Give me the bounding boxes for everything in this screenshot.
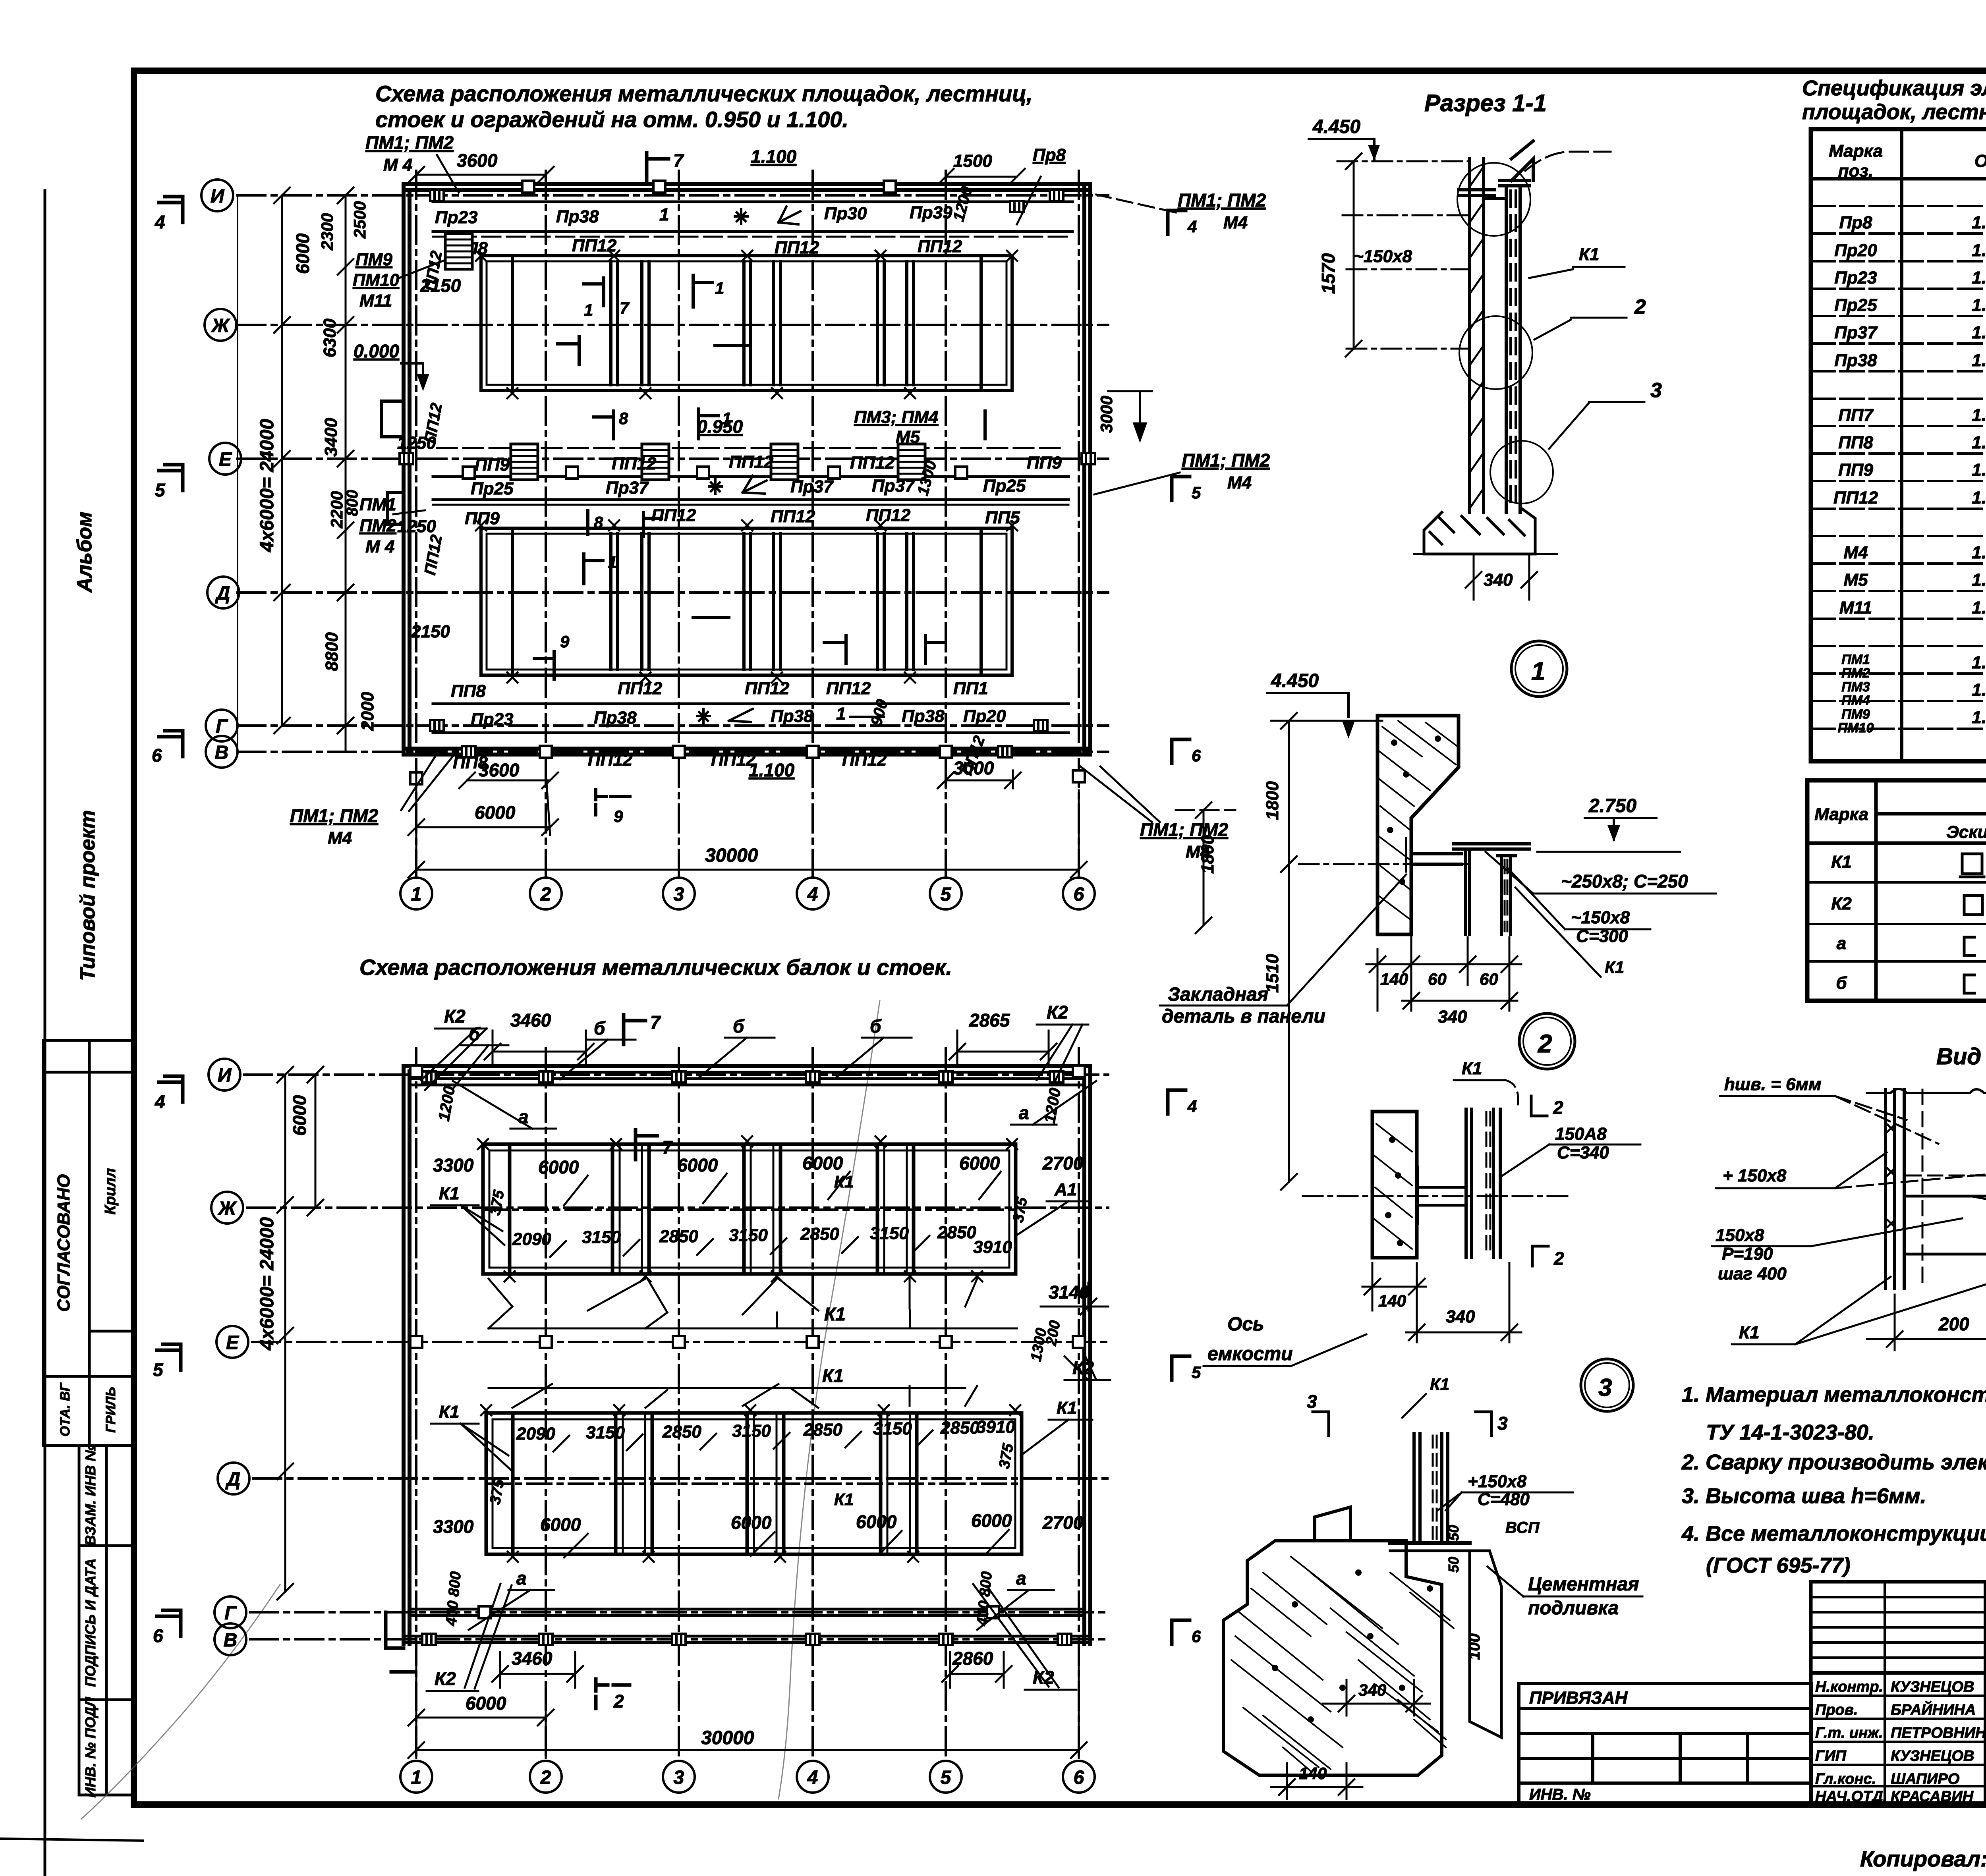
- svg-text:М5: М5: [1843, 570, 1868, 590]
- svg-text:1.459-2, вып.2: 1.459-2, вып.2: [1972, 460, 1986, 480]
- svg-text:Пр38: Пр38: [594, 708, 637, 728]
- svg-text:К2: К2: [1831, 894, 1852, 913]
- svg-text:50: 50: [1445, 1525, 1462, 1541]
- svg-text:7: 7: [673, 150, 684, 171]
- sheet edge line: [44, 191, 46, 1876]
- svg-text:2: 2: [1538, 1029, 1552, 1058]
- svg-text:Пр8: Пр8: [1033, 145, 1066, 165]
- svg-text:ПП9: ПП9: [1838, 460, 1873, 480]
- svg-text:2: 2: [1634, 295, 1646, 318]
- svg-text:стоек и ограждений на отм.: стоек и ограждений на отм. 0.950 и 1.100…: [375, 107, 848, 132]
- svg-text:~150х8: ~150х8: [1353, 247, 1412, 266]
- svg-text:1.459-2, вып.2: 1.459-2, вып.2: [1972, 433, 1986, 452]
- svg-text:5: 5: [1192, 1363, 1201, 1382]
- svg-text:4: 4: [1187, 217, 1197, 236]
- svg-text:1250: 1250: [397, 517, 436, 536]
- K1 sketch: two channels: [1962, 854, 1973, 874]
- wavy top: [1867, 1089, 1986, 1093]
- 6000 labels top row: [538, 1153, 1000, 1177]
- svg-text:Д: Д: [225, 1469, 241, 1490]
- tank 1: [481, 256, 1012, 390]
- svg-text:4: 4: [155, 212, 165, 232]
- svg-text:деталь в панели: деталь в панели: [1162, 1006, 1325, 1027]
- svg-text:375: 375: [1010, 1196, 1031, 1224]
- svg-text:8800: 8800: [322, 632, 342, 671]
- svg-text:2: 2: [540, 884, 551, 905]
- svg-text:3: 3: [674, 1767, 684, 1788]
- top beams (б) triple lines: [410, 1072, 1084, 1085]
- svg-text:емкости: емкости: [1207, 1343, 1293, 1365]
- svg-text:4: 4: [155, 1091, 165, 1112]
- svg-text:3150: 3150: [870, 1224, 909, 1243]
- 3140 dim right: [1041, 1283, 1108, 1314]
- svg-text:БРАЙНИНА: БРАЙНИНА: [1891, 1700, 1976, 1718]
- svg-text:Марка: Марка: [1814, 805, 1868, 824]
- svg-text:Н.контр.: Н.контр.: [1815, 1679, 1883, 1695]
- weld X marks: [1887, 1125, 1986, 1235]
- svg-text:ПОДПИСЬ И ДАТА: ПОДПИСЬ И ДАТА: [82, 1558, 99, 1687]
- svg-text:1.459-2, вып.2: 1.459-2, вып.2: [1972, 598, 1986, 618]
- svg-text:ПП8: ПП8: [1838, 433, 1873, 452]
- svg-text:150х8: 150х8: [1716, 1226, 1764, 1245]
- svg-text:ПП12: ПП12: [588, 750, 633, 770]
- svg-text:Пр23: Пр23: [435, 208, 477, 227]
- svg-text:Марка: Марка: [1829, 141, 1883, 161]
- svg-text:б: б: [1836, 973, 1847, 993]
- bottom dims: [408, 1652, 1087, 1758]
- posts along row Г/В: [430, 720, 444, 731]
- svg-text:9: 9: [614, 807, 623, 826]
- bottom row dims: [512, 1223, 1012, 1257]
- svg-text:ПМ1: ПМ1: [1841, 652, 1870, 667]
- svg-text:6000: 6000: [677, 1155, 718, 1175]
- svg-text:М5: М5: [896, 427, 920, 447]
- svg-text:К1: К1: [1430, 1375, 1449, 1393]
- axis lines: [244, 1048, 1108, 1761]
- svg-text:К1: К1: [834, 1490, 854, 1509]
- svg-text:340: 340: [1358, 1681, 1386, 1699]
- svg-text:2090: 2090: [516, 1424, 555, 1444]
- svg-text:ПП12: ПП12: [651, 506, 696, 525]
- svg-text:Цементная: Цементная: [1528, 1574, 1639, 1595]
- svg-text:К1: К1: [1462, 1059, 1482, 1078]
- svg-text:3150: 3150: [732, 1421, 771, 1441]
- согласовано box: [43, 1040, 134, 1446]
- svg-text:Схема расположения металличе: Схема расположения металлических балок и…: [359, 955, 952, 980]
- svg-text:8: 8: [619, 409, 628, 428]
- svg-text:а: а: [1016, 1568, 1026, 1588]
- left wall jog: [382, 401, 404, 524]
- svg-text:К1: К1: [439, 1184, 460, 1203]
- svg-text:К1: К1: [1579, 245, 1600, 264]
- svg-text:~250х8; С=250: ~250х8; С=250: [1561, 871, 1688, 892]
- svg-text:1.459-2, вып.2: 1.459-2, вып.2: [1972, 570, 1986, 590]
- svg-text:1.459-2, вып.1: 1.459-2, вып.1: [1972, 268, 1986, 288]
- svg-text:100: 100: [1466, 1633, 1483, 1660]
- svg-text:А1: А1: [1054, 1180, 1077, 1199]
- left dim chains: [277, 1067, 323, 1600]
- svg-text:К1: К1: [1739, 1323, 1760, 1342]
- svg-text:КУЗНЕЦОВ: КУЗНЕЦОВ: [1891, 1679, 1974, 1695]
- svg-text:200: 200: [1938, 1314, 1969, 1334]
- wall panel hatch: [1470, 167, 1484, 508]
- svg-text:ГИП: ГИП: [1815, 1748, 1847, 1764]
- bottom row 6000s rect2: [540, 1510, 1012, 1535]
- svg-text:3: 3: [1497, 1413, 1508, 1434]
- svg-text:ПМ1: ПМ1: [359, 495, 396, 514]
- svg-text:2850: 2850: [659, 1227, 698, 1246]
- svg-text:ПП12: ПП12: [842, 750, 887, 770]
- svg-text:ПМ3: ПМ3: [1841, 679, 1870, 695]
- svg-text:3150: 3150: [729, 1226, 768, 1245]
- svg-text:ПП12: ПП12: [612, 454, 657, 473]
- svg-text:6300: 6300: [320, 318, 340, 357]
- svg-text:ИНВ. № ПОДЛ: ИНВ. № ПОДЛ: [82, 1697, 99, 1798]
- б labels with leaders: [469, 1016, 882, 1044]
- svg-text:9: 9: [560, 632, 570, 651]
- svg-text:5: 5: [941, 884, 952, 905]
- svg-text:Вид по 2-2: Вид по 2-2: [1936, 1044, 1986, 1069]
- svg-text:3600: 3600: [479, 760, 520, 780]
- svg-text:7: 7: [620, 299, 630, 317]
- svg-text:6: 6: [1192, 1627, 1201, 1646]
- svg-text:3600: 3600: [457, 150, 498, 171]
- 340 dim below: [1473, 554, 1475, 600]
- svg-text:М4: М4: [1227, 473, 1252, 492]
- svg-text:3460: 3460: [510, 1010, 551, 1031]
- svg-text:2500: 2500: [350, 201, 369, 239]
- svg-text:7: 7: [662, 1137, 673, 1158]
- svg-text:ПП12: ПП12: [421, 533, 446, 576]
- embedded plate in wall: [1410, 832, 1413, 876]
- svg-text:К1: К1: [1057, 1398, 1077, 1418]
- svg-text:К1: К1: [822, 1365, 844, 1386]
- svg-text:ПП12: ПП12: [618, 679, 663, 698]
- svg-text:0.000: 0.000: [354, 341, 400, 361]
- column dashes (K1): [1511, 191, 1516, 508]
- svg-text:1.100: 1.100: [749, 760, 795, 780]
- svg-text:2000: 2000: [358, 692, 377, 731]
- svg-text:К1: К1: [824, 1304, 846, 1324]
- grid rect 1: [483, 1144, 1016, 1274]
- top section mark 7: [647, 153, 668, 183]
- svg-text:Разрез 1-1: Разрез 1-1: [1424, 90, 1547, 116]
- svg-text:3400: 3400: [321, 418, 341, 457]
- svg-text:ВСП: ВСП: [1505, 1519, 1540, 1536]
- bottom platform band: [451, 679, 988, 701]
- section flags left: [159, 197, 183, 757]
- svg-text:ПП12: ПП12: [729, 452, 774, 472]
- svg-text:1: 1: [836, 704, 846, 724]
- svg-text:900: 900: [867, 697, 891, 728]
- svg-text:0.950: 0.950: [697, 416, 743, 437]
- svg-text:ПРИВЯЗАН: ПРИВЯЗАН: [1529, 1688, 1628, 1708]
- svg-text:1.459-2, вып.2: 1.459-2, вып.2: [1972, 680, 1986, 700]
- svg-text:4: 4: [1187, 1097, 1197, 1116]
- svg-text:1. Материал металлоконструкци: 1. Материал металлоконструкций - сталь В…: [1682, 1383, 1986, 1407]
- left dim chains: [238, 187, 354, 752]
- axis circles: [209, 1059, 1095, 1793]
- svg-text:И: И: [211, 186, 225, 207]
- svg-text:3: 3: [1307, 1391, 1317, 1412]
- svg-text:1200: 1200: [435, 1085, 459, 1122]
- bottom beams rows Г В: [404, 1609, 1090, 1642]
- svg-text:ОТА. ВГ: ОТА. ВГ: [58, 1382, 73, 1436]
- column: [1466, 1109, 1500, 1258]
- svg-text:6000: 6000: [466, 1693, 506, 1714]
- svg-text:К1: К1: [1605, 958, 1624, 977]
- top row dims rect2: [516, 1417, 1015, 1444]
- svg-text:3: 3: [674, 884, 684, 905]
- svg-text:2860: 2860: [952, 1648, 993, 1669]
- top dims 3460 / 2865: [485, 1031, 1057, 1064]
- svg-text:4.450: 4.450: [1312, 116, 1360, 137]
- svg-text:Копировал: Корецкая: Копировал: Корецкая: [1860, 1846, 1986, 1871]
- building outline: [404, 1066, 1090, 1644]
- svg-text:Пр30: Пр30: [824, 204, 867, 223]
- svg-text:Пр38: Пр38: [902, 706, 945, 726]
- svg-text:5: 5: [941, 1767, 952, 1788]
- svg-text:площадок, лестниц, стоек, огра: площадок, лестниц, стоек, ограждений на …: [1802, 100, 1986, 124]
- building walls: [404, 184, 1090, 755]
- svg-text:КРАСАВИН: КРАСАВИН: [1891, 1788, 1974, 1805]
- svg-text:1: 1: [608, 553, 617, 571]
- svg-text:3: 3: [1598, 1374, 1612, 1401]
- svg-text:6000: 6000: [959, 1153, 1000, 1173]
- column stub: [1414, 1434, 1448, 1543]
- svg-text:М4: М4: [1223, 213, 1248, 232]
- svg-text:4х6000= 24000: 4х6000= 24000: [257, 1217, 278, 1351]
- scan creases: [81, 1001, 880, 1819]
- svg-text:ПМ3; ПМ4: ПМ3; ПМ4: [854, 407, 938, 427]
- svg-text:ПП12: ПП12: [771, 507, 815, 526]
- svg-text:Пр37: Пр37: [872, 476, 916, 496]
- svg-text:6000: 6000: [475, 802, 516, 823]
- svg-text:1.100: 1.100: [751, 146, 797, 167]
- svg-text:ТУ 14-1-3023-80.: ТУ 14-1-3023-80.: [1706, 1421, 1874, 1444]
- svg-text:3910: 3910: [976, 1417, 1015, 1437]
- svg-text:375: 375: [996, 1442, 1017, 1470]
- svg-text:В: В: [215, 742, 229, 763]
- dims: [1362, 1263, 1521, 1342]
- svg-text:К2: К2: [435, 1668, 456, 1689]
- svg-text:а: а: [516, 1568, 527, 1588]
- svg-text:1.459-2, вып.1: 1.459-2, вып.1: [1972, 213, 1986, 232]
- svg-text:1.459-2, вып.1: 1.459-2, вып.1: [1972, 351, 1986, 370]
- svg-text:шаг 400: шаг 400: [1718, 1264, 1787, 1283]
- svg-text:2850: 2850: [800, 1224, 839, 1244]
- svg-text:ПП12: ПП12: [421, 401, 446, 444]
- section marks 3: [1313, 1412, 1491, 1436]
- svg-text:1570: 1570: [1318, 253, 1339, 294]
- middle platform strip: [433, 448, 1068, 505]
- svg-text:4. Все металлоконструкции о: 4. Все металлоконструкции окрасить масля…: [1681, 1522, 1986, 1546]
- svg-text:~150х8: ~150х8: [1571, 908, 1630, 927]
- svg-text:ПЕТРОВНИНА: ПЕТРОВНИНА: [1891, 1725, 1986, 1741]
- svg-text:Пр39: Пр39: [910, 203, 952, 222]
- svg-text:ПП1: ПП1: [953, 679, 988, 698]
- svg-text:1800: 1800: [1198, 835, 1217, 874]
- svg-text:И: И: [218, 1065, 232, 1086]
- svg-text:К2: К2: [444, 1006, 466, 1027]
- svg-text:150А8: 150А8: [1555, 1124, 1607, 1144]
- svg-text:2: 2: [1553, 1248, 1564, 1269]
- svg-text:Д: Д: [215, 583, 230, 604]
- svg-text:1.459-2, вып.1: 1.459-2, вып.1: [1972, 241, 1986, 260]
- column members: [1470, 159, 1520, 512]
- svg-text:Пр8: Пр8: [1839, 213, 1873, 232]
- connection plates: [1418, 1186, 1466, 1189]
- svg-text:ПП8: ПП8: [451, 681, 486, 701]
- svg-text:ПП5: ПП5: [985, 508, 1020, 527]
- svg-text:Эскиз: Эскиз: [1946, 822, 1986, 842]
- top platform band: [433, 202, 1072, 237]
- base: [1414, 508, 1557, 554]
- svg-text:340: 340: [1438, 1007, 1467, 1027]
- svg-text:2. Сварку производить элект: 2. Сварку производить электродами Э-42 Г…: [1681, 1450, 1986, 1474]
- beam: [1412, 844, 1529, 934]
- svg-text:1.459-2, вып.2: 1.459-2, вып.2: [1972, 708, 1986, 727]
- svg-text:ПМ1; ПМ2: ПМ1; ПМ2: [1178, 190, 1266, 210]
- svg-text:Закладная: Закладная: [1168, 984, 1268, 1005]
- svg-text:6000: 6000: [856, 1511, 897, 1532]
- svg-text:1.459-2, вып.2: 1.459-2, вып.2: [1972, 653, 1986, 672]
- svg-text:3. Высота шва h=6мм.: 3. Высота шва h=6мм.: [1682, 1484, 1926, 1508]
- svg-text:1: 1: [659, 205, 669, 224]
- svg-text:Пр23: Пр23: [1834, 268, 1877, 288]
- svg-text:2090: 2090: [512, 1229, 551, 1249]
- svg-text:1: 1: [584, 301, 593, 319]
- svg-text:Схема расположения металличес: Схема расположения металлических площадо…: [375, 81, 1033, 106]
- beam between: [1905, 1196, 1986, 1254]
- svg-text:Ж: Ж: [217, 1198, 237, 1219]
- svg-text:1.459-2, вып.1: 1.459-2, вып.1: [1972, 323, 1986, 342]
- tank 2: [481, 528, 1012, 675]
- svg-text:Г.т. инж.: Г.т. инж.: [1815, 1725, 1883, 1741]
- svg-text:+ 150х8: + 150х8: [1723, 1166, 1787, 1185]
- svg-text:6000: 6000: [731, 1512, 772, 1533]
- svg-text:3000: 3000: [953, 758, 994, 778]
- svg-text:ВЗАМ. ИНВ №: ВЗАМ. ИНВ №: [82, 1445, 99, 1545]
- top dims: [408, 167, 1025, 185]
- svg-text:Пр38: Пр38: [771, 706, 813, 726]
- svg-text:б: б: [594, 1018, 606, 1038]
- posts row E: [410, 1336, 422, 1348]
- svg-text:3140: 3140: [1049, 1282, 1090, 1303]
- axis dash-dot: [1299, 863, 1470, 865]
- svg-text:2700: 2700: [1042, 1153, 1084, 1173]
- svg-text:Пр38: Пр38: [556, 207, 599, 226]
- svg-text:3300: 3300: [433, 1155, 474, 1175]
- axis horizontal dash-dot lines: [238, 171, 1108, 878]
- svg-text:б: б: [870, 1016, 882, 1036]
- svg-text:М11: М11: [1839, 598, 1872, 618]
- svg-text:ПП9: ПП9: [1027, 453, 1062, 473]
- svg-text:3: 3: [1650, 379, 1662, 402]
- concrete base blob: [1223, 1541, 1442, 1775]
- svg-text:7: 7: [650, 1012, 661, 1033]
- cement pocket right: [1470, 1551, 1501, 1737]
- corner stubs: [386, 1612, 413, 1672]
- svg-text:ПМ2: ПМ2: [1841, 666, 1870, 681]
- svg-text:2850: 2850: [662, 1422, 701, 1442]
- svg-text:3460: 3460: [512, 1648, 553, 1669]
- axis circles: [201, 179, 1095, 909]
- svg-text:1800: 1800: [1263, 781, 1282, 820]
- svg-text:4: 4: [807, 1767, 818, 1788]
- svg-text:4х6000= 24000: 4х6000= 24000: [257, 419, 278, 552]
- svg-text:Пр23: Пр23: [471, 710, 513, 729]
- svg-text:В: В: [224, 1630, 238, 1651]
- svg-text:ПП12: ПП12: [918, 237, 962, 256]
- base plate: [1390, 1541, 1470, 1545]
- svg-text:М 4: М 4: [383, 155, 412, 175]
- dim chain 1800/1510: [1288, 721, 1290, 1182]
- svg-text:1: 1: [722, 409, 731, 428]
- dims: [1271, 1680, 1430, 1799]
- svg-text:6: 6: [1074, 1767, 1084, 1788]
- svg-text:К1: К1: [1831, 852, 1852, 872]
- svg-text:2850: 2850: [940, 1418, 979, 1438]
- svg-text:1: 1: [715, 279, 724, 297]
- svg-text:5: 5: [153, 1359, 164, 1380]
- svg-text:К1: К1: [439, 1402, 460, 1422]
- bottom dim 200: [1867, 1295, 1986, 1350]
- svg-text:ПМ4: ПМ4: [1841, 693, 1870, 708]
- svg-text:1: 1: [411, 1767, 422, 1788]
- svg-text:340: 340: [1484, 570, 1513, 590]
- svg-text:2850: 2850: [803, 1420, 842, 1440]
- svg-text:ГРИЛЬ: ГРИЛЬ: [103, 1387, 118, 1432]
- detail circles: [1457, 163, 1553, 504]
- svg-text:375: 375: [487, 1478, 508, 1506]
- concrete wall with corbel: [1377, 716, 1459, 934]
- svg-text:400 800: 400 800: [443, 1571, 464, 1627]
- svg-text:2: 2: [1553, 1097, 1563, 1118]
- svg-text:5: 5: [155, 480, 166, 500]
- svg-text:ИНВ. №: ИНВ. №: [1529, 1786, 1591, 1803]
- K2 sketch: [1964, 896, 1974, 915]
- svg-text:1500: 1500: [953, 151, 992, 171]
- stair top-left: [445, 234, 472, 269]
- svg-text:ПМ9: ПМ9: [1841, 707, 1870, 722]
- svg-text:340: 340: [1446, 1307, 1475, 1326]
- svg-text:6: 6: [1074, 884, 1084, 905]
- dim line 1570: [1353, 161, 1355, 349]
- svg-text:1: 1: [411, 884, 422, 905]
- svg-text:СОГЛАСОВАНО: СОГЛАСОВАНО: [54, 1174, 73, 1312]
- svg-text:ПМ2: ПМ2: [359, 516, 396, 535]
- svg-text:2850: 2850: [937, 1223, 976, 1242]
- svg-text:5: 5: [1192, 483, 1201, 502]
- svg-text:ПМ10: ПМ10: [353, 270, 400, 290]
- svg-text:М 4: М 4: [365, 537, 394, 556]
- svg-text:3150: 3150: [582, 1228, 621, 1247]
- svg-text:6000: 6000: [292, 233, 313, 274]
- top section mark 7: [624, 1015, 645, 1044]
- svg-text:М4: М4: [328, 828, 352, 848]
- svg-text:6: 6: [1192, 746, 1201, 765]
- svg-text:Спецификация элементов к схе: Спецификация элементов к схеме расположе…: [1802, 76, 1986, 100]
- grid rect 2: [486, 1413, 1022, 1554]
- svg-text:800: 800: [344, 490, 361, 516]
- svg-text:Г: Г: [224, 1603, 237, 1624]
- a sketch: [1964, 937, 1974, 955]
- svg-text:+150х8: +150х8: [1468, 1472, 1527, 1491]
- svg-text:60: 60: [1480, 970, 1498, 988]
- svg-text:Обозначение: Обозначение: [1974, 151, 1986, 171]
- svg-text:6: 6: [153, 1625, 163, 1646]
